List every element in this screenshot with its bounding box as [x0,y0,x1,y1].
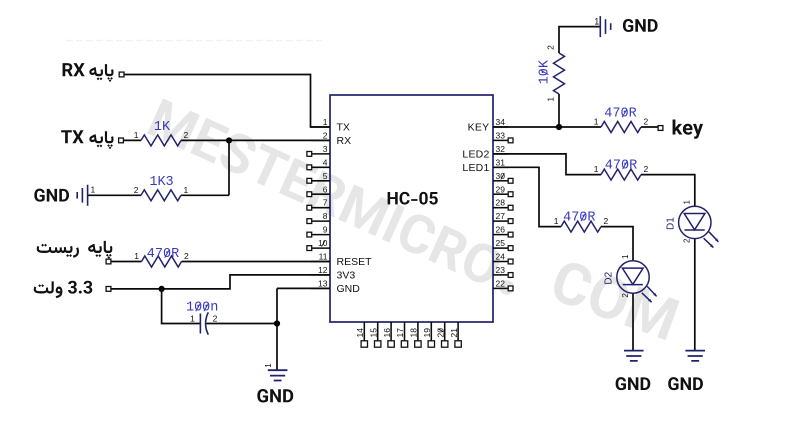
svg-text:2: 2 [604,216,609,226]
svg-text:17: 17 [395,328,405,338]
svg-text:1K3: 1K3 [149,175,173,190]
svg-text:32: 32 [496,144,506,154]
svg-text:29: 29 [496,184,506,194]
svg-text:10: 10 [318,238,328,248]
svg-text:1: 1 [134,130,139,140]
svg-text:23: 23 [496,265,506,275]
svg-text:2: 2 [184,130,189,140]
svg-text:470R: 470R [147,247,179,262]
svg-text:1: 1 [554,216,559,226]
svg-text:KEY: KEY [468,122,490,134]
svg-text:13: 13 [318,278,328,288]
svg-text:LED2: LED2 [462,149,489,161]
svg-text:LED1: LED1 [462,162,489,174]
svg-text:1: 1 [264,363,273,368]
svg-text:470R: 470R [563,210,595,225]
svg-text:RX: RX [337,135,352,147]
svg-text:22: 22 [496,278,506,288]
svg-text:1: 1 [594,117,599,127]
svg-text:8: 8 [323,211,328,221]
svg-text:470R: 470R [605,158,637,173]
svg-text:2: 2 [323,130,328,140]
svg-text:470R: 470R [604,107,636,122]
svg-text:3: 3 [323,144,328,154]
svg-text:18: 18 [409,328,419,338]
svg-text:11: 11 [319,252,328,262]
svg-text:3V3: 3V3 [337,270,356,282]
svg-text:24: 24 [496,252,506,262]
svg-text:1: 1 [621,254,630,259]
svg-text:1: 1 [134,251,139,261]
svg-text:1: 1 [184,185,189,195]
svg-text:2: 2 [683,238,692,243]
svg-text:2: 2 [545,45,555,50]
svg-text:20: 20 [435,328,445,338]
svg-text:1: 1 [545,97,555,102]
svg-text:6: 6 [323,184,328,194]
svg-text:31: 31 [496,157,506,167]
svg-text:21: 21 [449,328,459,338]
svg-text:30: 30 [496,171,506,181]
svg-text:RESET: RESET [337,256,373,268]
svg-text:1: 1 [594,17,599,27]
svg-text:1: 1 [683,199,692,204]
svg-text:19: 19 [422,328,432,338]
svg-text:5: 5 [323,171,328,181]
svg-text:7: 7 [323,198,328,208]
svg-text:100n: 100n [186,301,218,316]
svg-text:GND: GND [337,283,361,295]
svg-text:1: 1 [323,117,328,127]
svg-text:16: 16 [382,328,392,338]
svg-text:27: 27 [496,211,506,221]
svg-text:10K: 10K [538,59,553,84]
svg-text:2: 2 [621,293,630,298]
svg-text:14: 14 [355,328,365,338]
svg-text:2: 2 [134,185,139,195]
svg-text:28: 28 [496,198,506,208]
svg-text:4: 4 [323,157,328,167]
svg-text:2: 2 [644,164,649,174]
svg-text:33: 33 [496,130,506,140]
svg-text:D1: D1 [666,217,677,230]
svg-text:1: 1 [594,164,599,174]
svg-text:34: 34 [496,117,506,127]
svg-text:26: 26 [496,225,506,235]
svg-text:2: 2 [184,251,189,261]
svg-text:9: 9 [323,225,328,235]
svg-text:15: 15 [368,328,378,338]
svg-text:1K: 1K [154,120,171,135]
svg-text:1: 1 [91,184,96,194]
svg-text:2: 2 [644,117,649,127]
svg-text:12: 12 [318,265,328,275]
svg-text:25: 25 [496,238,506,248]
svg-text:TX: TX [337,122,350,134]
svg-text:D2: D2 [604,271,615,284]
